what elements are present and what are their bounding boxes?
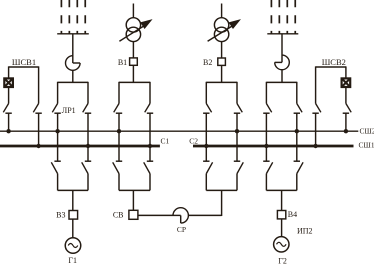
svg-text:В4: В4	[288, 210, 297, 219]
junction: В2 branch on bus СШ2	[235, 129, 239, 133]
wire: right reactor feeder branch bar	[266, 81, 296, 83]
breaker В2	[218, 58, 226, 65]
generator Г2	[274, 237, 289, 252]
svg-text:СР: СР	[177, 225, 186, 234]
wire: В2 right branch through buses down	[236, 113, 238, 161]
disconnector СР branch from bus СШ2	[234, 161, 244, 173]
wire: В2 right branch lower	[236, 174, 238, 191]
breaker В4	[277, 211, 285, 219]
disconnector СР branch from bus СШ1	[203, 161, 213, 173]
disconnector В2 feeder to bus СШ2	[234, 104, 243, 114]
svg-text:Г1: Г1	[68, 256, 77, 264]
svg-text:В1: В1	[118, 58, 127, 67]
bus СШ1 section С2 (thick busbar)	[193, 145, 354, 148]
disconnector reactor feeder to bus СШ2	[294, 104, 303, 114]
svg-text:ЛР1: ЛР1	[62, 106, 76, 115]
wire: ШСВ1 left leg top	[8, 66, 10, 78]
wire: ШСВ2 left leg to bus СШ1	[315, 113, 317, 146]
wire: В1 left branch through bus СШ2 down	[118, 113, 120, 161]
wire: В1 left branch lower	[118, 174, 120, 191]
wire: bar to breaker СВ	[132, 190, 134, 210]
junction: ШСВ2 on bus СШ2	[344, 129, 348, 133]
wire: В2 to branch bar	[221, 65, 223, 82]
reactor СР	[173, 208, 188, 223]
wire: left branch lower	[265, 174, 267, 191]
bus СШ2 (thin busbar)	[0, 130, 358, 132]
disconnector Г2 branch from bus СШ2	[294, 161, 304, 173]
disconnector В1 feeder to bus СШ1	[145, 104, 154, 114]
wire: ШСВ2 right leg top	[345, 66, 347, 78]
wire: СР to right coupler branch	[188, 190, 221, 216]
disconnector ШСВ2 to bus СШ1	[312, 104, 321, 114]
wire: reactor2 right branch upper	[296, 82, 298, 104]
svg-text:СШ1: СШ1	[359, 141, 374, 150]
wire: СВ to reactor СР	[138, 214, 173, 216]
breaker В1	[130, 58, 138, 65]
wire: right coupler branch bar	[206, 189, 237, 191]
wire: ШСВ1 right leg to bus СШ1	[38, 113, 40, 146]
wire: СВ branch bar	[119, 189, 150, 191]
wire: ШСВ2 jumper bar	[316, 66, 346, 68]
disconnector Г2 branch from bus СШ1	[263, 161, 273, 173]
svg-text:В2: В2	[203, 58, 212, 67]
wire: ЛР1 right branch upper	[87, 82, 89, 104]
wire: В1 left branch upper	[118, 82, 120, 104]
wire: ШСВ1 left leg to bus СШ2	[8, 113, 10, 131]
svg-text:С2: С2	[189, 137, 198, 146]
wire: В1 to branch bar	[132, 65, 134, 82]
junction: ШСВ1 on bus СШ1	[36, 144, 40, 148]
wire: transformer T2 incoming line	[221, 4, 223, 18]
svg-text:ШСВ2: ШСВ2	[322, 57, 346, 67]
wire: ШСВ2 right leg to bus СШ2	[345, 113, 347, 131]
wire: bar to reactor ЛР1	[72, 34, 74, 63]
wire: Г1 branch bar	[58, 189, 88, 191]
wire: bar to breaker В4	[281, 190, 283, 210]
svg-text:СВ: СВ	[113, 210, 124, 219]
wire: T2 to breaker В2	[221, 42, 223, 58]
svg-text:СШ2: СШ2	[360, 126, 374, 135]
transformer T2 (two-winding, regulated)	[208, 18, 240, 42]
wire: right branch lower	[87, 174, 89, 191]
junction: ШСВ2 on bus СШ1	[313, 144, 317, 148]
wire: left branch through bus СШ2 down	[57, 113, 59, 161]
wire: В2 right branch upper	[236, 82, 238, 104]
wire: В2 left branch through bus СШ2 down	[205, 113, 207, 161]
wire: transformer T1 incoming line	[132, 4, 134, 18]
wire: В2 left branch lower	[205, 174, 207, 191]
wire: В1 branch bar	[119, 81, 150, 83]
wire: В3 to generator Г1	[72, 219, 74, 238]
breaker ШСВ2 (crossed square)	[342, 78, 351, 87]
breaker В3	[69, 211, 78, 220]
feeder lines group 2 (dashed outgoing lines)	[271, 0, 295, 34]
wire: ШСВ1 right leg	[38, 66, 40, 103]
bus СШ1 section С1 (thick busbar)	[0, 145, 160, 148]
disconnector СВ branch from bus СШ2	[113, 161, 123, 173]
breaker СВ (bus coupler)	[129, 210, 138, 219]
disconnector reactor feeder to bus СШ1	[263, 104, 272, 114]
wire: bar to breaker В3	[72, 190, 74, 210]
generator Г1	[65, 238, 81, 254]
disconnector Г1 branch from bus СШ1	[82, 161, 92, 173]
wire: ШСВ1 left leg middle	[8, 87, 10, 104]
wire: В4 to generator Г2	[281, 219, 283, 237]
disconnector ШСВ1 to bus СШ2	[3, 104, 12, 114]
junction: ШСВ1 on bus СШ2	[6, 129, 10, 133]
junction: ЛР1 branch on bus СШ2	[55, 129, 59, 133]
disconnector Г1 branch from bus СШ2	[51, 161, 61, 173]
wire: В1 right branch upper	[149, 82, 151, 104]
junction: reactor feeder branch on bus СШ1	[264, 144, 268, 148]
wire: ЛР1 feeder branch bar	[58, 81, 88, 83]
svg-text:Г2: Г2	[278, 257, 287, 264]
node: feeder collector bar 2	[267, 33, 298, 35]
wire: right branch lower	[296, 174, 298, 191]
wire: В2 left branch upper	[205, 82, 207, 104]
junction: reactor feeder branch on bus СШ2	[295, 129, 299, 133]
breaker ШСВ1 (crossed square)	[4, 78, 13, 87]
disconnector В2 feeder to bus СШ1	[203, 104, 212, 114]
wire: ЛР1 left branch upper	[57, 82, 59, 104]
feeder lines group 1 (dashed outgoing lines)	[61, 0, 85, 34]
wire: left branch through bus СШ2 down	[265, 113, 267, 161]
junction: В1 branch on bus СШ1	[148, 144, 152, 148]
transformer T1 (two-winding, regulated)	[119, 18, 151, 42]
wire: bar to reactor 2	[281, 34, 283, 63]
reactor ЛР1	[66, 56, 81, 83]
wire: ШСВ2 right leg middle	[345, 87, 347, 104]
wire: Г2 branch bar	[266, 189, 296, 191]
disconnector СВ branch from bus СШ1	[144, 161, 154, 173]
wire: ШСВ2 left leg	[315, 66, 317, 103]
wire: В1 right branch through buses down	[149, 113, 151, 161]
wire: ШСВ1 jumper bar	[9, 66, 39, 68]
wire: right branch through buses down	[296, 113, 298, 161]
node: feeder collector bar 1	[57, 33, 89, 35]
svg-text:В3: В3	[56, 211, 65, 220]
disconnector ЛР1 feeder to bus СШ2	[52, 104, 61, 114]
disconnector ШСВ1 to bus СШ1	[33, 104, 42, 114]
svg-text:С1: С1	[161, 137, 170, 146]
wire: В1 right branch lower	[149, 174, 151, 191]
junction: В1 branch on bus СШ2	[117, 129, 121, 133]
junction: ЛР1 branch on bus СШ1	[86, 144, 90, 148]
wire: reactor2 left branch upper	[265, 82, 267, 104]
svg-text:ШСВ1: ШСВ1	[12, 57, 36, 67]
wire: right branch through buses down	[87, 113, 89, 161]
disconnector В1 feeder to bus СШ2	[114, 104, 123, 114]
wire: В2 branch bar	[206, 81, 237, 83]
junction: В2 branch on bus СШ1	[204, 144, 208, 148]
disconnector ШСВ2 to bus СШ2	[343, 104, 352, 114]
disconnector ЛР1 feeder to bus СШ1	[83, 104, 92, 114]
reactor (right feeder group)	[275, 55, 290, 82]
svg-text:ИП2: ИП2	[297, 227, 313, 236]
wire: T1 to breaker В1	[132, 42, 134, 58]
wire: left branch lower	[57, 174, 59, 191]
